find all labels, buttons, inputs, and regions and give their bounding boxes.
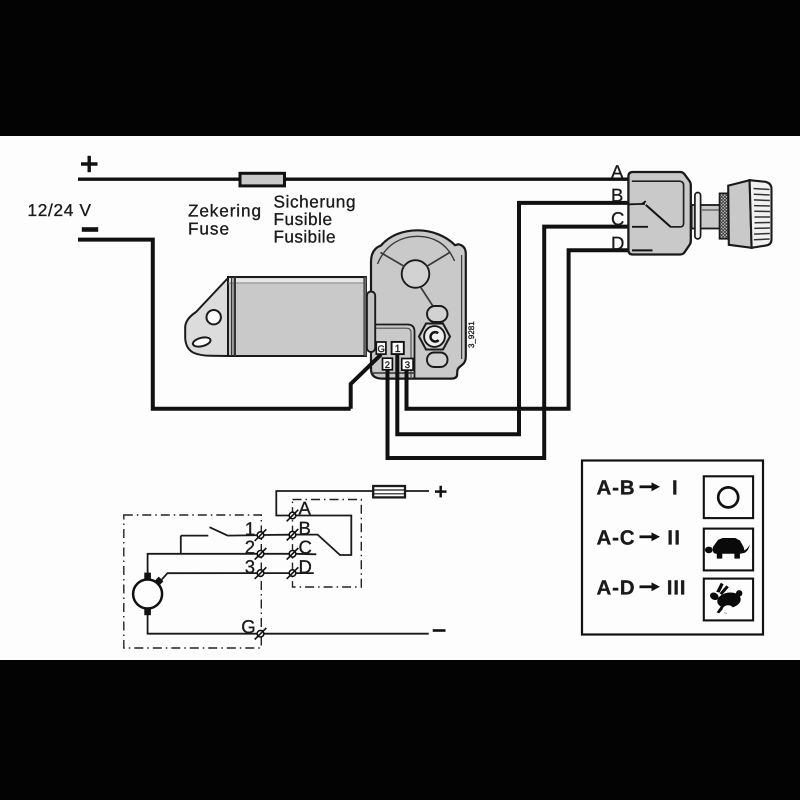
shaft between body and knob [692, 205, 721, 229]
svg-text:Fusibile: Fusibile [274, 226, 336, 246]
gearbox housing [371, 230, 466, 378]
svg-text:I: I [672, 476, 678, 499]
contact D [287, 567, 299, 579]
icon box III [704, 579, 753, 621]
svg-text:D: D [299, 556, 312, 577]
knob front face [728, 180, 751, 248]
schematic plus symbol [435, 486, 447, 498]
motor M symbol [133, 580, 162, 609]
wire: main positive feed to switch A [78, 177, 628, 180]
connector pin 2 [383, 358, 393, 371]
wire: A to arm pivot [296, 516, 352, 556]
svg-text:1: 1 [395, 343, 401, 355]
gearbox inner dome contour [378, 236, 455, 264]
wire: pin3 to switch D [407, 250, 629, 409]
svg-text:C: C [611, 208, 624, 229]
contact 1 [255, 529, 267, 541]
contact 2 [255, 548, 267, 560]
svg-text:G: G [378, 344, 385, 355]
cylinder right seam band [364, 277, 367, 356]
svg-text:3: 3 [245, 556, 255, 577]
contact 3 [255, 567, 267, 579]
cylinder top highlight line [229, 278, 363, 282]
switch contact stub D [632, 249, 653, 251]
connector pin G [376, 342, 386, 355]
wire: pin2 to switch C [388, 227, 629, 458]
hare icon [709, 583, 743, 614]
arrow row 3 [640, 582, 661, 591]
plus terminal symbol [81, 156, 98, 172]
knurled collar [720, 193, 729, 239]
C mark on shaft [431, 332, 439, 341]
wire: minus feed down and right to ground junction [78, 240, 351, 409]
contact A [287, 510, 299, 522]
switch arm blade [646, 205, 671, 227]
arrow row 1 [640, 482, 661, 491]
svg-text:2: 2 [385, 360, 390, 371]
bracket round hole [207, 310, 221, 324]
fuse F1 [240, 173, 285, 186]
turtle icon [705, 538, 750, 559]
svg-text:2: 2 [245, 537, 255, 558]
svg-text:A-B: A-B [597, 476, 636, 499]
spoke upper-left [381, 253, 405, 267]
svg-text:3: 3 [405, 360, 410, 371]
gear boss circle [402, 260, 430, 288]
wire: row3 motor to contacts 3 and D [162, 573, 258, 580]
output hex nut [419, 324, 450, 350]
letterbox top band [0, 0, 800, 136]
motor brush terminal bottom [144, 608, 151, 615]
svg-text:G: G [241, 616, 255, 637]
knob ridges [754, 189, 771, 240]
svg-text:III: III [667, 576, 687, 599]
wire: switch arm blade [210, 527, 228, 535]
contact C [287, 548, 299, 560]
wire: ground row G [148, 613, 258, 634]
spoke upper-right [427, 252, 451, 267]
motor cylinder body [228, 277, 366, 356]
connector pin 1 [392, 342, 404, 355]
switch contact stub C [632, 226, 648, 228]
svg-text:A: A [299, 498, 312, 519]
schematic fuse [373, 486, 405, 497]
svg-text:A: A [611, 161, 624, 182]
flange tab between cylinder and gearbox [367, 292, 375, 353]
wire: pin1 to switch B [397, 203, 628, 434]
svg-text:II: II [667, 526, 681, 549]
gearbox inner right contour [461, 255, 463, 359]
wire: row2 motor to contacts 2 and C [148, 554, 258, 576]
switch contact stub B with pivot tick [630, 203, 646, 205]
nut circle [424, 326, 445, 347]
icon box II [704, 529, 753, 571]
crank upper capsule [427, 306, 448, 322]
dash-dot box motor unit [124, 515, 261, 648]
wire: arm row1 fixed contact [181, 535, 209, 537]
cylinder left seam [231, 277, 233, 356]
svg-text:D: D [611, 233, 624, 254]
svg-text:B: B [299, 517, 311, 538]
minus terminal symbol [82, 227, 98, 232]
knob ridged face [750, 180, 772, 248]
wire: G pin to ground junction [351, 355, 381, 409]
connector recess outline [371, 325, 415, 379]
arrow row 2 [640, 532, 661, 541]
wire: schematic plus feed [405, 490, 429, 492]
svg-text:C: C [299, 537, 312, 558]
park position circle icon [718, 487, 738, 507]
letterbox bottom band [0, 660, 800, 800]
spoke to crank [421, 287, 434, 307]
bracket slot hole [192, 336, 211, 349]
svg-text:Fuse: Fuse [188, 218, 229, 238]
washer disc [695, 193, 701, 239]
connector pin 3 [402, 359, 413, 371]
switch interior contour [632, 181, 684, 227]
svg-text:A-C: A-C [597, 526, 636, 549]
crank lower capsule [427, 353, 448, 368]
svg-text:A-D: A-D [597, 576, 636, 599]
dash-dot box switch unit [293, 500, 362, 588]
contact G [255, 628, 267, 640]
wire: link row1 to row2 [180, 536, 182, 554]
wire: row1 to contact1 and B [228, 534, 258, 536]
motor brush terminal top [144, 573, 151, 580]
svg-text:B: B [611, 185, 623, 206]
svg-text:3_9281: 3_9281 [467, 321, 476, 348]
icon box I [704, 476, 753, 518]
switch body [628, 172, 690, 255]
svg-text:12/24 V: 12/24 V [28, 200, 92, 220]
schematic minus symbol [433, 629, 446, 632]
motor brush terminal upper-right [154, 577, 163, 586]
contact B [287, 529, 299, 541]
motor mounting bracket [185, 278, 228, 356]
